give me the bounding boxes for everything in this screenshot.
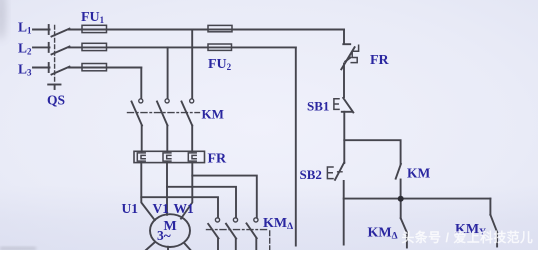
contactor KM-delta pole 2 bottom wire bbox=[235, 239, 237, 250]
thermal relay FR heater element 1 bbox=[137, 153, 145, 161]
contactor KM-delta pole 3 blade bbox=[247, 223, 257, 238]
wire drop from L1 to KM pole 3 bbox=[191, 30, 193, 99]
thermal relay FR box bbox=[134, 151, 205, 162]
switch QS pole 2 blade bbox=[52, 47, 70, 55]
motor M circle bbox=[150, 214, 190, 247]
contactor KM pole 1 fixed contact circle bbox=[139, 99, 143, 103]
contactor KM-delta linkage dashed vertical bbox=[269, 231, 271, 250]
junction node dot bbox=[398, 196, 404, 202]
relay contact FR (NC) blade bbox=[341, 47, 354, 69]
switch QS pole 3 terminal bar bbox=[48, 63, 50, 72]
wire KM pole 1 to FR bbox=[141, 126, 143, 152]
svg-text:3~: 3~ bbox=[157, 228, 171, 243]
wire branch U1 to KM-delta pole 1 bbox=[141, 197, 218, 218]
thermal relay FR heater element 3 bbox=[188, 153, 196, 161]
contactor KM-delta linkage dashed line bbox=[207, 229, 267, 231]
wire KM pole 3 to FR bbox=[191, 126, 193, 152]
contactor KM-delta pole 3 fixed contact circle bbox=[254, 218, 258, 222]
switch QS handle bar bbox=[48, 84, 60, 86]
wire SB2 bottom down bbox=[343, 181, 345, 245]
wire FR pole 3 down to W1 junction bbox=[181, 163, 192, 219]
svg-text:头条号 / 爱上科技范儿: 头条号 / 爱上科技范儿 bbox=[402, 230, 534, 245]
pushbutton SB2 (NO) blade bbox=[335, 162, 344, 179]
svg-text:FR: FR bbox=[208, 152, 228, 167]
fuse FU1 pole 1 bbox=[82, 25, 107, 32]
fuse FU2 pole 1 bbox=[208, 25, 232, 31]
wire L3 row after switch bbox=[69, 67, 141, 69]
relay contact FR (NC) hook symbol bbox=[351, 45, 358, 62]
wire FR pole 2 down to V1 bbox=[166, 163, 168, 215]
contactor KM-delta pole 1 blade bbox=[208, 224, 218, 239]
pushbutton SB2 actuator E bbox=[327, 167, 333, 179]
contact KM-delta control bottom wire bbox=[406, 233, 408, 248]
contact KM-delta control (NO) blade bbox=[401, 218, 407, 233]
fuse FU1 pole 3 bbox=[82, 64, 107, 71]
pushbutton SB1 bottom tick bbox=[342, 111, 352, 113]
wire node to KMy branch corner bbox=[489, 199, 491, 215]
contactor KM pole 2 blade bbox=[157, 102, 168, 126]
contactor KM-delta pole 1 fixed contact circle bbox=[215, 218, 219, 222]
wire node horizontal bbox=[344, 198, 491, 200]
contactor KM pole 2 fixed contact circle bbox=[165, 99, 169, 103]
wire branch V1 to KM-delta pole 2 bbox=[167, 187, 236, 218]
wire drop from L2 to KM pole 2 bbox=[167, 47, 169, 98]
svg-text:KM: KM bbox=[202, 107, 224, 122]
switch QS linkage dashed line bbox=[54, 26, 56, 85]
fuse FU2 pole 2 bbox=[208, 44, 232, 50]
wire SB1 to SB2 bbox=[343, 112, 345, 163]
wire top line corner down to FR contact bbox=[343, 30, 345, 44]
contactor KM-delta pole 3 bottom wire bbox=[255, 238, 257, 250]
wire KM aux bottom to node bbox=[400, 180, 402, 199]
switch QS pole 1 terminal bar bbox=[48, 25, 50, 34]
contactor KM pole 3 blade bbox=[182, 102, 193, 126]
pushbutton SB2 actuator dash bbox=[338, 171, 342, 173]
pushbutton SB1 actuator E bbox=[334, 99, 339, 110]
motor bottom lead V2 bbox=[167, 247, 169, 250]
motor bottom lead W2 bbox=[184, 243, 191, 250]
fuse FU1 pole 2 bbox=[82, 43, 107, 50]
contactor KM-delta pole 1 bottom wire bbox=[217, 238, 219, 250]
switch QS pole 1 blade bbox=[52, 29, 70, 37]
wire KM pole 2 to FR bbox=[166, 126, 168, 152]
contactor KM linkage dashed line bbox=[128, 112, 200, 114]
contactor KM pole 1 blade bbox=[132, 102, 143, 126]
wire L2 row bbox=[33, 46, 50, 48]
svg-text:W1: W1 bbox=[174, 201, 195, 216]
wire L1 row after switch bbox=[69, 29, 344, 31]
wire FR pole 1 down to U1 junction bbox=[141, 163, 155, 221]
wire L1 row bbox=[33, 29, 50, 31]
svg-text:SB1: SB1 bbox=[307, 99, 329, 114]
thermal relay FR heater element 2 bbox=[163, 153, 171, 161]
wire branch W1 to KM-delta pole 3 bbox=[192, 176, 256, 218]
svg-text:SB2: SB2 bbox=[300, 167, 322, 182]
contactor KM pole 3 fixed contact circle bbox=[190, 99, 194, 103]
contactor KM-delta pole 2 blade bbox=[226, 224, 236, 239]
switch QS handle stub bbox=[54, 85, 56, 90]
wire drop from L3 to KM pole 1 bbox=[140, 68, 142, 99]
relay contact FR (NC) top tick bbox=[343, 43, 350, 45]
contact KM aux (NO) blade bbox=[396, 164, 401, 179]
svg-text:U1: U1 bbox=[122, 201, 139, 216]
svg-text:KM: KM bbox=[407, 166, 431, 181]
contact KM-delta control (NO) top wire bbox=[400, 199, 402, 219]
contact KMy bottom wire bbox=[496, 232, 498, 246]
svg-text:V1: V1 bbox=[153, 201, 170, 216]
wire L3 row bbox=[33, 67, 50, 69]
relay contact FR (NC) cross tick bbox=[345, 58, 350, 62]
wire SB2 parallel branch to KM aux bbox=[344, 140, 400, 164]
contact KMy (NO) blade bbox=[490, 215, 497, 233]
wire L2 row after switch bbox=[69, 46, 296, 48]
svg-text:FR: FR bbox=[370, 53, 390, 68]
contactor KM-delta pole 2 fixed contact circle bbox=[233, 218, 237, 222]
wire left control rail bbox=[295, 47, 297, 245]
switch QS pole 2 terminal bar bbox=[48, 43, 50, 52]
wire FR contact to SB1 bbox=[343, 64, 345, 98]
pushbutton SB1 (NC) blade bbox=[343, 98, 353, 113]
svg-text:QS: QS bbox=[47, 92, 65, 107]
motor bottom lead U2 bbox=[146, 242, 155, 250]
switch QS pole 3 blade bbox=[52, 67, 70, 75]
